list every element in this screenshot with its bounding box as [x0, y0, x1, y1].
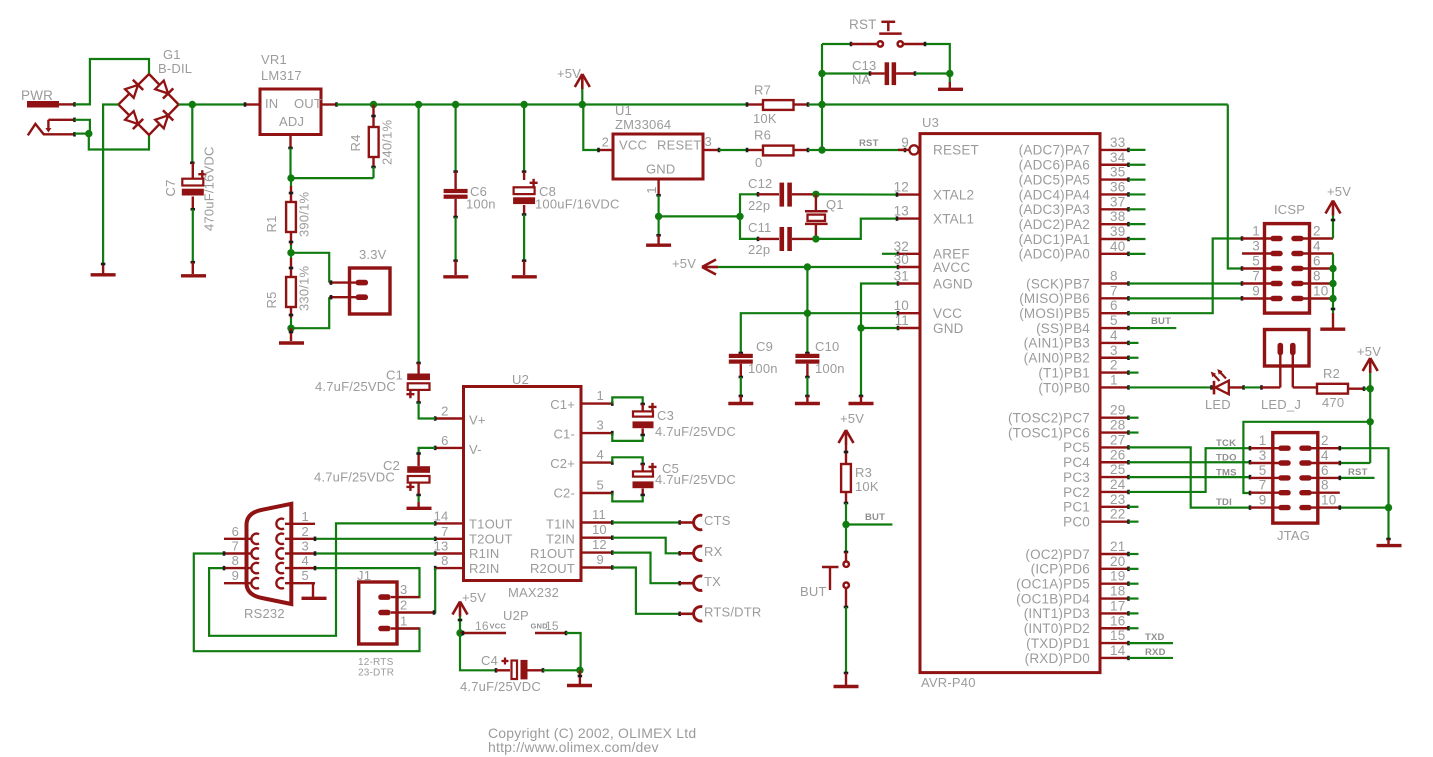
pin U3 pin8 (SCK)PB7 [1026, 269, 1128, 292]
svg-text:(SS)PB4: (SS)PB4 [1036, 321, 1090, 336]
capacitor C2 4.7uF/25VDC [314, 453, 430, 496]
pin U3 pin38 (ADC2)PA2 [1019, 209, 1129, 232]
wire jack tip jog [75, 120, 90, 134]
svg-text:(ADC3)PA3: (ADC3)PA3 [1019, 202, 1090, 217]
svg-text:PC0: PC0 [1063, 514, 1090, 529]
svg-text:15: 15 [545, 619, 559, 633]
svg-text:CTS: CTS [704, 513, 731, 528]
svg-text:18: 18 [1110, 584, 1125, 599]
svg-text:C2+: C2+ [550, 456, 575, 471]
junction C6 rail node [452, 101, 459, 108]
svg-text:12: 12 [592, 537, 607, 552]
svg-text:9: 9 [1252, 284, 1260, 299]
svg-text:(T0)PB0: (T0)PB0 [1038, 380, 1090, 395]
svg-text:22p: 22p [748, 242, 770, 257]
pin U3 pin21 (OC2)PD7 [1025, 539, 1128, 562]
svg-text:33: 33 [1110, 135, 1125, 150]
wire XTAL1 to U3 [816, 216, 899, 239]
wire TDO PC4 to JTAG pin3 [1129, 460, 1251, 465]
wire RST to U3 and ICSP [822, 103, 1228, 105]
wire main rail bridge to VR1 [179, 103, 245, 105]
capacitor C3 4.7uF/25VDC [612, 397, 736, 441]
junction U2P node [456, 629, 463, 636]
svg-text:TMS: TMS [1216, 468, 1237, 479]
resistor R7 10K [747, 83, 808, 127]
pin U3 pin15 (TXD)PD1 [1026, 628, 1128, 651]
svg-text:R4: R4 [348, 134, 363, 151]
ground below C9 [728, 396, 753, 404]
wire BUT stub at PB4 [1129, 327, 1177, 329]
wire RS232 pin4 to J1 pin3 [315, 566, 420, 600]
wire ICSP ground chain [1331, 254, 1336, 314]
junction ICSP pin8 node [1329, 280, 1336, 287]
pin U3 pin6 (MOSI)PB5 [1019, 298, 1128, 321]
pin U2 left leads [434, 404, 464, 571]
ground below U1 [646, 235, 671, 245]
pin U3 pin9 RESET [898, 135, 979, 158]
junction ADJ node [287, 174, 294, 181]
copyright text [488, 725, 696, 755]
capacitor C8 100uF/16VDC [513, 105, 619, 215]
svg-text:(AIN1)PB3: (AIN1)PB3 [1024, 336, 1090, 351]
pin U3 pin31 AGND [894, 269, 973, 292]
wire AGND to ground [859, 328, 864, 396]
junction BUT node [842, 521, 849, 528]
pin U1 pin2 [599, 148, 614, 153]
svg-text:7: 7 [232, 539, 239, 554]
wire C1 to V+ [419, 403, 436, 419]
pin U3 pin2 (T1)PB1 [1038, 358, 1128, 381]
svg-text:PC4: PC4 [1063, 455, 1090, 470]
wire R1OUT to TX [612, 553, 679, 586]
svg-text:IN: IN [265, 96, 278, 111]
svg-text:(TOSC2)PC7: (TOSC2)PC7 [1008, 411, 1090, 426]
wire AVCC to VCC row drop [806, 267, 808, 313]
junction RST rail node [818, 101, 825, 108]
pin RS232 left pins [224, 524, 259, 589]
svg-text:37: 37 [1110, 194, 1125, 209]
wire RST button left [822, 42, 851, 47]
svg-text:(TXD)PD1: (TXD)PD1 [1026, 636, 1090, 651]
svg-text:+5V: +5V [462, 590, 486, 605]
svg-text:10: 10 [1313, 284, 1328, 299]
svg-text:LM317: LM317 [261, 68, 302, 83]
wire TCK PC2 to JTAG pin1 [1129, 446, 1251, 492]
svg-text:T2IN: T2IN [546, 531, 575, 546]
wire R3 to BUT node [845, 503, 847, 525]
wire +5V down to JTAG [1369, 389, 1371, 463]
wire R2 to +5V [1364, 388, 1370, 390]
IC U3 AVR-P40 body [920, 115, 1100, 690]
pin U3 pin39 (ADC1)PA1 [1019, 224, 1129, 247]
svg-text:+5V: +5V [557, 66, 581, 81]
svg-text:RST: RST [1348, 467, 1368, 478]
jumper LED_J [1261, 330, 1317, 413]
svg-text:(T1)PB1: (T1)PB1 [1038, 365, 1090, 380]
svg-text:(SCK)PB7: (SCK)PB7 [1026, 276, 1090, 291]
capacitor C11 22p [748, 220, 816, 257]
svg-text:(ADC0)PA0: (ADC0)PA0 [1019, 247, 1090, 262]
pin U3 pin11 GND [895, 313, 964, 336]
svg-text:RS232: RS232 [244, 606, 285, 621]
svg-text:100n: 100n [466, 197, 496, 212]
resistor R1 390/1% [264, 178, 312, 253]
svg-text:U2: U2 [512, 372, 529, 387]
svg-text:11: 11 [592, 507, 606, 522]
ground below C6 [443, 261, 468, 277]
svg-text:8: 8 [1313, 269, 1321, 284]
wire jack to bridge bottom [89, 134, 149, 150]
svg-text:25: 25 [1110, 462, 1125, 477]
svg-text:ICSP: ICSP [1274, 202, 1305, 217]
svg-text:BUT: BUT [865, 512, 885, 523]
wire jack sleeve [75, 133, 89, 135]
ground below AGND [849, 396, 874, 404]
pin U3 pin25 PC3 [1063, 462, 1128, 485]
svg-text:RTS/DTR: RTS/DTR [704, 605, 762, 620]
label TMS [1216, 468, 1237, 479]
jumper 3.3V [329, 247, 390, 314]
svg-text:(OC2)PD7: (OC2)PD7 [1025, 547, 1090, 562]
junction R1 bottom node [287, 249, 294, 256]
svg-text:R2OUT: R2OUT [530, 561, 575, 576]
wire C9 to ground [739, 377, 744, 396]
capacitor C10 100n [795, 339, 844, 377]
svg-text:4: 4 [1313, 239, 1321, 254]
svg-text:PWR: PWR [21, 88, 53, 103]
power jack J-plug [28, 118, 75, 137]
svg-text:9: 9 [901, 135, 909, 150]
ground below R5 [279, 328, 304, 343]
pin U3 pin26 PC4 [1063, 447, 1128, 470]
pin U3 pin13 XTAL1 [894, 204, 975, 227]
svg-text:4.7uF/25VDC: 4.7uF/25VDC [655, 472, 736, 487]
wire TMS PC3 to JTAG pin5 [1129, 475, 1251, 480]
svg-text:(ADC7)PA7: (ADC7)PA7 [1019, 143, 1090, 158]
svg-text:LED: LED [1205, 397, 1231, 412]
svg-text:(ADC1)PA1: (ADC1)PA1 [1019, 232, 1090, 247]
svg-text:+5V: +5V [1327, 184, 1351, 199]
pin U3 pin32 AREF [894, 239, 970, 262]
wire LED to LED_J [1244, 385, 1262, 390]
wire JTAG pin2 to ground [1340, 446, 1391, 539]
svg-text:6: 6 [441, 433, 448, 448]
svg-text:28: 28 [1110, 418, 1125, 433]
junction RST row node [818, 146, 825, 153]
svg-text:3: 3 [1259, 448, 1267, 463]
wire XTAL2 to U3 [816, 192, 899, 197]
wire BUT button to ground [844, 607, 849, 673]
pushbutton BUT [800, 552, 849, 607]
svg-text:5: 5 [597, 478, 604, 493]
svg-text:12: 12 [894, 180, 909, 195]
wire R5 top to 3.3V jumper [291, 253, 329, 276]
svg-text:V-: V- [469, 442, 482, 457]
junction ICSP pin6 node [1329, 265, 1336, 272]
wire R2OUT to RTS/DTR [612, 568, 679, 617]
label TXD [1145, 632, 1165, 643]
wire C8 to ground [522, 215, 527, 261]
svg-text:RESET: RESET [657, 138, 701, 153]
wire JTAG pin10 to ground [1340, 505, 1389, 510]
svg-text:RST: RST [849, 17, 877, 32]
label TCK [1216, 438, 1236, 449]
svg-text:8: 8 [232, 553, 239, 568]
junction C1 rail node [415, 101, 422, 108]
wire JTAG pin6 RST stub [1340, 476, 1375, 481]
wire MOSI to ICSP pin1 [1129, 236, 1243, 313]
svg-text:36: 36 [1110, 179, 1125, 194]
wire SCK to ICSP pin7 [1129, 281, 1243, 286]
pin U3 pin30 AVCC [894, 252, 971, 275]
svg-text:100uF/16VDC: 100uF/16VDC [535, 197, 620, 212]
svg-text:C4: C4 [481, 653, 498, 668]
svg-text:39: 39 [1110, 224, 1125, 239]
wire V- to C2 [419, 448, 436, 453]
pin U3 pin4 (AIN1)PB3 [1024, 328, 1129, 351]
svg-text:+5V: +5V [840, 411, 864, 426]
svg-text:7: 7 [1110, 283, 1118, 298]
svg-text:3: 3 [597, 418, 604, 433]
svg-text:5: 5 [1110, 313, 1118, 328]
pin U3 pin20 (ICP)PD6 [1031, 554, 1129, 577]
pushbutton RST [849, 17, 925, 47]
supply +5V at ICSP [1326, 184, 1352, 239]
wire U1 GND down [657, 195, 659, 216]
svg-text:TX: TX [704, 574, 721, 589]
svg-text:7: 7 [1252, 269, 1260, 284]
svg-text:ADJ: ADJ [279, 114, 304, 129]
svg-text:17: 17 [1110, 598, 1125, 613]
pin U3 pin19 (OC1A)PD5 [1016, 569, 1128, 592]
pin U2P pin15 GND [503, 608, 566, 635]
IC U2 MAX232 body [464, 372, 582, 600]
svg-text:C7: C7 [163, 179, 178, 196]
label J1 options [358, 657, 394, 679]
svg-text:7: 7 [1259, 478, 1267, 493]
wire U1 GND to crystal gnd [659, 215, 740, 217]
svg-text:G1: G1 [163, 47, 181, 62]
svg-text:2: 2 [302, 524, 309, 539]
junction crystal mid node [736, 213, 743, 220]
pin U3 pin34 (ADC6)PA6 [1019, 150, 1129, 173]
wire AREF stub [882, 252, 898, 256]
svg-text:1: 1 [597, 388, 604, 403]
pin U3 pin1 (T0)PB0 [1038, 372, 1128, 395]
resistor R3 10K [841, 445, 879, 503]
label TDI [1216, 497, 1232, 508]
wire RST row to U3 pin9 [822, 148, 905, 153]
svg-text:BUT: BUT [800, 584, 827, 599]
wire ADJ to R4 [291, 177, 374, 179]
crystal Q1 [805, 194, 844, 239]
wire C11 row [740, 216, 758, 241]
wire T1IN to CTS [612, 520, 679, 525]
svg-text:1: 1 [400, 614, 407, 629]
capacitor C1 4.7uF/25VDC [315, 363, 430, 403]
wire crystal gnd riser [740, 192, 758, 216]
svg-text:390/1%: 390/1% [297, 191, 312, 237]
junction JTAG gnd node [1385, 504, 1392, 511]
svg-text:1: 1 [302, 509, 309, 524]
wire C10 drop [805, 313, 810, 353]
svg-text:(MISO)PB6: (MISO)PB6 [1019, 291, 1090, 306]
wire +5V to JTAG pin7 [1243, 422, 1370, 495]
ground below C4 [567, 670, 592, 685]
wire T2IN to RX [612, 538, 679, 556]
svg-text:C2-: C2- [553, 486, 575, 501]
capacitor C5 4.7uF/25VDC [612, 457, 736, 501]
svg-text:GND: GND [933, 321, 964, 336]
pin U3 pin16 (INT0)PD2 [1024, 613, 1129, 636]
ground below ICSP [1320, 313, 1345, 329]
pin RS232 right pins [276, 509, 315, 589]
connector RS232 DB9 body [244, 504, 291, 621]
svg-text:10K: 10K [855, 479, 879, 494]
svg-text:C12: C12 [748, 176, 772, 191]
pin U3 pin35 (ADC5)PA5 [1019, 165, 1129, 188]
svg-text:5: 5 [1259, 463, 1267, 478]
svg-text:LED_J: LED_J [1261, 397, 1301, 412]
pin U3 pin7 (MISO)PB6 [1019, 283, 1128, 306]
ground below C2 [407, 502, 432, 508]
junction C4 gnd node [576, 667, 583, 674]
wire C4 to gnd node [543, 669, 580, 671]
svg-text:3: 3 [705, 134, 712, 149]
svg-text:Q1: Q1 [826, 197, 844, 212]
resistor R6 0 [747, 128, 808, 171]
pin U1 pin3 [703, 148, 719, 153]
svg-text:22: 22 [1110, 507, 1125, 522]
svg-text:1: 1 [1110, 372, 1118, 387]
svg-text:5: 5 [1252, 254, 1260, 269]
svg-text:VCC: VCC [619, 138, 647, 153]
ground below JTAG [1377, 539, 1402, 546]
resistor R2 470 [1317, 366, 1364, 410]
svg-text:TCK: TCK [1216, 438, 1236, 449]
svg-text:NA: NA [852, 72, 871, 87]
label RST at JTAG [1348, 467, 1368, 478]
svg-text:9: 9 [597, 552, 604, 567]
svg-text:4: 4 [597, 447, 604, 462]
svg-text:TXD: TXD [1145, 632, 1165, 643]
svg-text:T1OUT: T1OUT [469, 517, 513, 532]
svg-text:6: 6 [1313, 254, 1321, 269]
pin U2 right leads [581, 388, 612, 570]
svg-text:(OC1A)PD5: (OC1A)PD5 [1016, 577, 1090, 592]
svg-text:B-DIL: B-DIL [158, 61, 192, 76]
svg-text:T1IN: T1IN [546, 517, 575, 532]
svg-text:R7: R7 [754, 83, 771, 98]
junction U1 GND node [655, 213, 662, 220]
svg-text:24: 24 [1110, 477, 1126, 492]
wire C7 drop [190, 105, 195, 163]
wire TXD stub [1129, 642, 1174, 644]
pin U3 pin12 XTAL2 [894, 180, 975, 203]
label RST near pin9 [859, 138, 879, 149]
wire R7 to RST node [808, 103, 822, 105]
wire C1 drop from rail [416, 105, 421, 364]
svg-text:38: 38 [1110, 209, 1125, 224]
svg-text:V+: V+ [469, 413, 486, 428]
svg-text:(INT0)PD2: (INT0)PD2 [1024, 621, 1090, 636]
svg-text:PC5: PC5 [1063, 440, 1090, 455]
IC U1 ZM33064 [602, 103, 712, 179]
label BUT at PB4 [1151, 316, 1171, 327]
svg-text:1: 1 [644, 186, 659, 193]
svg-text:U1: U1 [615, 103, 632, 118]
wire U1 GND to ground [656, 216, 661, 235]
connector J1 body [357, 568, 397, 644]
svg-text:0: 0 [755, 155, 762, 170]
pin U3 pin10 VCC [894, 298, 963, 321]
svg-text:3: 3 [1252, 239, 1260, 254]
svg-text:35: 35 [1110, 165, 1125, 180]
wire bridge minus to ground [103, 105, 118, 265]
svg-text:+5V: +5V [672, 256, 696, 271]
svg-text:RXD: RXD [1145, 647, 1166, 658]
svg-text:10K: 10K [753, 111, 777, 126]
wire U1 VCC to +5V [583, 105, 598, 151]
wire RST button right [925, 42, 950, 74]
wire AVCC row [718, 265, 898, 270]
svg-text:27: 27 [1110, 432, 1125, 447]
svg-text:C1+: C1+ [550, 397, 575, 412]
svg-text:R1OUT: R1OUT [530, 546, 575, 561]
connector CTS [680, 513, 731, 530]
junction ICSP pin10 node [1329, 295, 1336, 302]
svg-text:15: 15 [1110, 628, 1125, 643]
svg-text:3: 3 [302, 539, 309, 554]
svg-text:40: 40 [1110, 239, 1125, 254]
svg-text:(ADC4)PA4: (ADC4)PA4 [1019, 187, 1091, 202]
junction VCC row node [804, 310, 811, 317]
svg-text:U3: U3 [922, 115, 939, 130]
junction AVCC node [804, 263, 811, 270]
wire 3.3V jumper to R5 bottom [291, 304, 329, 328]
svg-text:11: 11 [895, 313, 909, 328]
svg-text:13: 13 [434, 539, 449, 554]
svg-text:240/1%: 240/1% [380, 119, 395, 165]
wire TDI PC5 to JTAG pin9 [1129, 447, 1251, 509]
wire T2OUT to RS232 pin2 row [315, 537, 435, 542]
wire PA stubs [1129, 150, 1146, 254]
junction XTAL2 node [812, 191, 819, 198]
junction C8 rail node [520, 101, 527, 108]
svg-text:VR1: VR1 [261, 52, 287, 67]
svg-text:4.7uF/25VDC: 4.7uF/25VDC [314, 470, 395, 485]
pin U3 pin36 (ADC4)PA4 [1019, 179, 1129, 202]
LED [1205, 369, 1244, 412]
connector JTAG body [1273, 433, 1318, 543]
wire RST down to ICSP pin5 [1228, 105, 1242, 271]
capacitor C13 NA [822, 58, 950, 87]
svg-text:9: 9 [1259, 493, 1267, 508]
svg-text:R5: R5 [264, 291, 279, 308]
svg-text:14: 14 [434, 508, 449, 523]
ground below RST button [938, 74, 963, 90]
wire RXD stub [1129, 657, 1174, 659]
wire PC1 PC0 stubs [1129, 507, 1139, 522]
svg-text:GND: GND [646, 162, 676, 177]
svg-text:(INT1)PD3: (INT1)PD3 [1024, 606, 1090, 621]
svg-text:4.7uF/25VDC: 4.7uF/25VDC [315, 379, 396, 394]
svg-text:6: 6 [1110, 298, 1118, 313]
wire C10 to ground [805, 377, 810, 396]
supply +5V near U1 [557, 66, 590, 105]
pin U3 pin24 PC2 [1063, 477, 1128, 500]
svg-text:100n: 100n [748, 361, 778, 376]
